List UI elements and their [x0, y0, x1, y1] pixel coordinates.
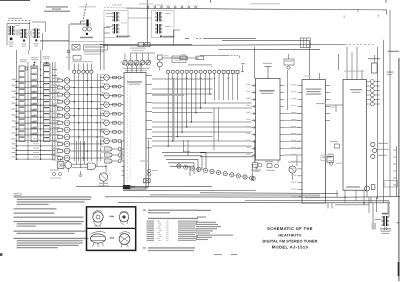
wire vertical to lower board: [68, 24, 70, 70]
right text marks: [387, 72, 394, 76]
wire right bus 2: [222, 40, 310, 42]
IF transformer T2 secondary: [155, 24, 171, 34]
wire IF interstage: [128, 17, 152, 19]
wire dial lines: [200, 140, 255, 163]
svg-text:HEATHKIT®: HEATHKIT®: [278, 233, 301, 237]
note 3: [14, 213, 55, 214]
note 4 final: [143, 247, 195, 251]
wire top dashes: [104, 7, 126, 9]
trimmer C1 cluster: [16, 25, 21, 36]
tuner IC U4 bottom label: [305, 197, 320, 199]
notes heading: [14, 193, 23, 196]
component cluster mid-right: [329, 141, 342, 165]
tp labels mid: [140, 151, 190, 162]
right edge segment: [388, 50, 399, 52]
coil L1 with core: [8, 26, 15, 47]
tuner IC U4 pins: [291, 84, 330, 196]
inter-IC wire: [326, 105, 344, 112]
bus wire D: [105, 196, 400, 199]
mid vertical wires: [97, 140, 188, 166]
page right edge line: [398, 58, 400, 281]
bus bends into decoder: [337, 190, 365, 205]
dashed bracket above coils: [8, 18, 32, 21]
electrolytic C-big (dark blob): [123, 185, 135, 189]
lattice right section: [213, 77, 252, 146]
tuning gang C-main (5 sections): [122, 53, 151, 65]
driver transistor array (6): [367, 80, 381, 106]
title line 2: [278, 233, 301, 237]
line cord wires: [385, 227, 387, 231]
display board IC U3 inner dashes: [127, 76, 130, 184]
interconnect box: [300, 38, 310, 48]
clock oscillator parts: [265, 160, 279, 171]
wire right bus 5: [200, 56, 240, 59]
transistor Q2: [98, 166, 109, 186]
crystal Y2 box: [58, 162, 64, 169]
right vertical rails: [378, 10, 391, 203]
front-end shield box outline: [7, 22, 46, 50]
wire oscillator line: [162, 57, 199, 59]
resistor on IF line 1: [138, 42, 144, 46]
vertical feed line: [146, 0, 148, 45]
wire IF bus B: [103, 44, 200, 46]
note text block (wafer circuit board legend): [44, 6, 70, 12]
trimmer next to crystal: [62, 162, 72, 169]
osc caps: [148, 169, 159, 176]
power transformer T-pwr: [375, 213, 389, 226]
top bus labels: [250, 3, 280, 4]
stringing or-arrow top: [110, 216, 115, 217]
tick mark top edge: [210, 0, 212, 3]
tuner IC U4 MK50250 outline: [302, 80, 326, 204]
wire antenna stub: [89, 23, 92, 25]
117VAC label: [372, 223, 377, 230]
stringing or-arrow bottom: [110, 237, 115, 238]
switch wafer S3: [44, 64, 51, 142]
top bus terminals: [147, 6, 197, 9]
wire right bus 1: [185, 38, 256, 40]
filter component F1: [327, 154, 334, 163]
left matrix labels and junctions: [12, 67, 42, 160]
wiring lattice between display board and clock: [152, 77, 213, 147]
legend tp heading: [197, 216, 206, 217]
keyboard encoder transistors column 1 (12): [52, 78, 105, 161]
legend lower box: [66, 56, 81, 61]
bus wire C: [200, 192, 338, 195]
label 10.7 MHz first IF: [117, 35, 131, 37]
switch wafer S1: [19, 66, 25, 142]
crystal X2 with label: [368, 55, 380, 73]
component cluster right of U3 top: [119, 140, 124, 160]
note 1: [14, 196, 92, 205]
clock crystal Y1 cluster: [251, 160, 262, 171]
title line 3: [263, 240, 318, 244]
bus wire E: [118, 202, 390, 204]
wire IF bus A: [100, 43, 192, 45]
nested wire bends: [162, 152, 206, 176]
legend box crystal symbol: [72, 45, 80, 51]
legend small circle: [67, 50, 70, 53]
connector pins P1 (5 pins): [72, 61, 93, 73]
legend footer dashes: [214, 254, 238, 255]
display driver transistors column 2 (8): [100, 74, 124, 144]
right rail stubs: [393, 146, 397, 197]
IF transformer T2 shield box: [152, 11, 175, 38]
4.5MHz trap: [321, 155, 334, 160]
dial cord pulley chain: [176, 164, 254, 180]
clock IC U1 MM5316 outline: [256, 79, 281, 161]
lower gates column 2 (3 gates): [101, 146, 122, 163]
top tiny labels: [112, 3, 163, 5]
tuning gang labels: [123, 68, 150, 71]
matrix buses under pins: [73, 74, 101, 162]
IF transformer T1 shield box: [104, 11, 128, 38]
regulator block label: [43, 56, 51, 63]
filter block label: [31, 57, 38, 63]
bus wire G: [245, 197, 389, 217]
clock right wires: [284, 70, 300, 149]
wire drops left of gang: [100, 46, 102, 70]
IF transformer T1 primary: [106, 12, 119, 22]
note 6: [14, 231, 86, 235]
bus gray trace: [150, 194, 320, 196]
squiggle mark b: [377, 14, 380, 19]
wire right bus 3: [200, 44, 375, 47]
svg-text:MODEL AJ-1510: MODEL AJ-1510: [272, 244, 309, 249]
transistor Q6: [365, 186, 370, 197]
wire top bus (long, slightly sloped): [126, 8, 387, 10]
wire right bus 4: [218, 49, 320, 51]
legend heading: [197, 210, 211, 211]
tuner IC U4 label block: [306, 89, 327, 105]
wire top bus drop: [358, 9, 387, 15]
IF transformer T1 secondary: [106, 22, 127, 33]
trimmer C2 cluster: [28, 31, 32, 37]
keyboard right squiggle: [241, 63, 245, 72]
clock IC top pin 13: [255, 47, 273, 79]
resistor R-osc 2: [196, 56, 203, 60]
note 3 dial-cord heading: [143, 210, 198, 214]
left matrix vertical rails: [17, 62, 56, 160]
display board IC U3 outline: [124, 73, 146, 189]
note 7: [14, 238, 89, 248]
transistor Q5 right: [371, 142, 389, 158]
resistor on IF line 2: [145, 42, 150, 46]
bus drops right: [371, 197, 388, 226]
squiggle mark a: [343, 15, 346, 20]
stringing drum bottom-right: [119, 232, 130, 248]
connector pins P2 (16 pins): [167, 64, 239, 79]
display board IC U3 pins: [120, 62, 152, 148]
note 5: [14, 221, 84, 227]
stringing drum bottom-left: [90, 232, 105, 247]
wire from blob: [131, 140, 149, 187]
feed buses to gate: [77, 141, 85, 168]
note 2: [14, 208, 57, 209]
voltage table header: [148, 218, 198, 219]
left edge mark: [0, 253, 2, 256]
stringing pulley top-right: [119, 211, 129, 224]
antenna lead-in (dashed): [79, 4, 96, 19]
note 4: [14, 217, 84, 218]
power transformer labels: [380, 228, 391, 234]
svg-text:SCHEMATIC OF THE: SCHEMATIC OF THE: [267, 226, 313, 231]
bus wire B: [123, 189, 256, 191]
AND gate G-mix: [72, 163, 107, 169]
switch wafer S2: [31, 66, 38, 142]
tuner IC bottom pins: [328, 203, 332, 209]
clock IC U1 pins: [246, 84, 284, 157]
decoder IC U5 bottom label: [346, 186, 360, 187]
bus wire A: [76, 185, 212, 187]
IC U3 left lower pins: [122, 149, 125, 188]
oscillator trimmer: [157, 55, 168, 71]
wire front-end output: [40, 33, 69, 50]
title line 1: [267, 226, 313, 231]
decoder IC U5 label: [350, 89, 362, 93]
coil L3 with core: [33, 29, 40, 47]
IF transformer T2 primary: [155, 12, 171, 22]
wire mute drops: [338, 54, 340, 70]
dial cord anchor: [251, 164, 259, 180]
antenna terminal J1: [70, 20, 93, 39]
wire segment mid: [130, 52, 155, 54]
decoder IC U5 outline: [343, 80, 367, 191]
tick right: [397, 222, 400, 224]
stringing pulley top-left: [93, 211, 104, 227]
display board IC U3 label: [127, 81, 142, 84]
dial stringing detail box: [87, 207, 136, 251]
clock IC U1 label: [260, 90, 275, 94]
dial lamp box: [172, 56, 186, 62]
voltage table rows: [147, 221, 199, 241]
crystal Y3 box: [144, 179, 151, 183]
legend wide box: [84, 45, 108, 50]
lattice gray traces: [152, 78, 219, 150]
wire crystal feed: [61, 158, 69, 172]
power switch top contact: [25, 67, 27, 70]
decoder IC U5 top pins: [344, 47, 364, 80]
fuse on line: [371, 185, 375, 190]
svg-text:DIGITAL FM STEREO TUNER: DIGITAL FM STEREO TUNER: [263, 240, 318, 244]
tp cluster lower left: [50, 170, 62, 179]
tuner IC U4 top pins: [304, 41, 320, 80]
bus wire F: [335, 204, 369, 206]
transistor Q-clock: [284, 155, 297, 180]
legend list entries: [196, 222, 233, 240]
wire tuner input vertical: [104, 27, 110, 70]
wire stub: [173, 30, 180, 46]
wire long faint rule: [40, 40, 104, 42]
small box on right rail: [384, 181, 398, 188]
ground symbol below gate: [79, 171, 83, 176]
left switch matrix wires (17 rows): [15, 70, 57, 160]
top right tick: [385, 0, 387, 3]
page top-left edge line: [0, 0, 30, 2]
resistor R-osc 1: [180, 54, 187, 60]
coil L2 with core: [20, 29, 27, 47]
muting cluster: [284, 54, 294, 69]
title line 4: [272, 244, 309, 249]
legend text rows: [84, 51, 104, 54]
power section rails: [17, 50, 41, 63]
regulator top mark: [46, 62, 48, 64]
power switch label: [20, 59, 28, 62]
afc cluster text: [130, 48, 146, 51]
filter top mark: [33, 64, 35, 66]
label 10.7 MHz second IF: [160, 35, 175, 37]
